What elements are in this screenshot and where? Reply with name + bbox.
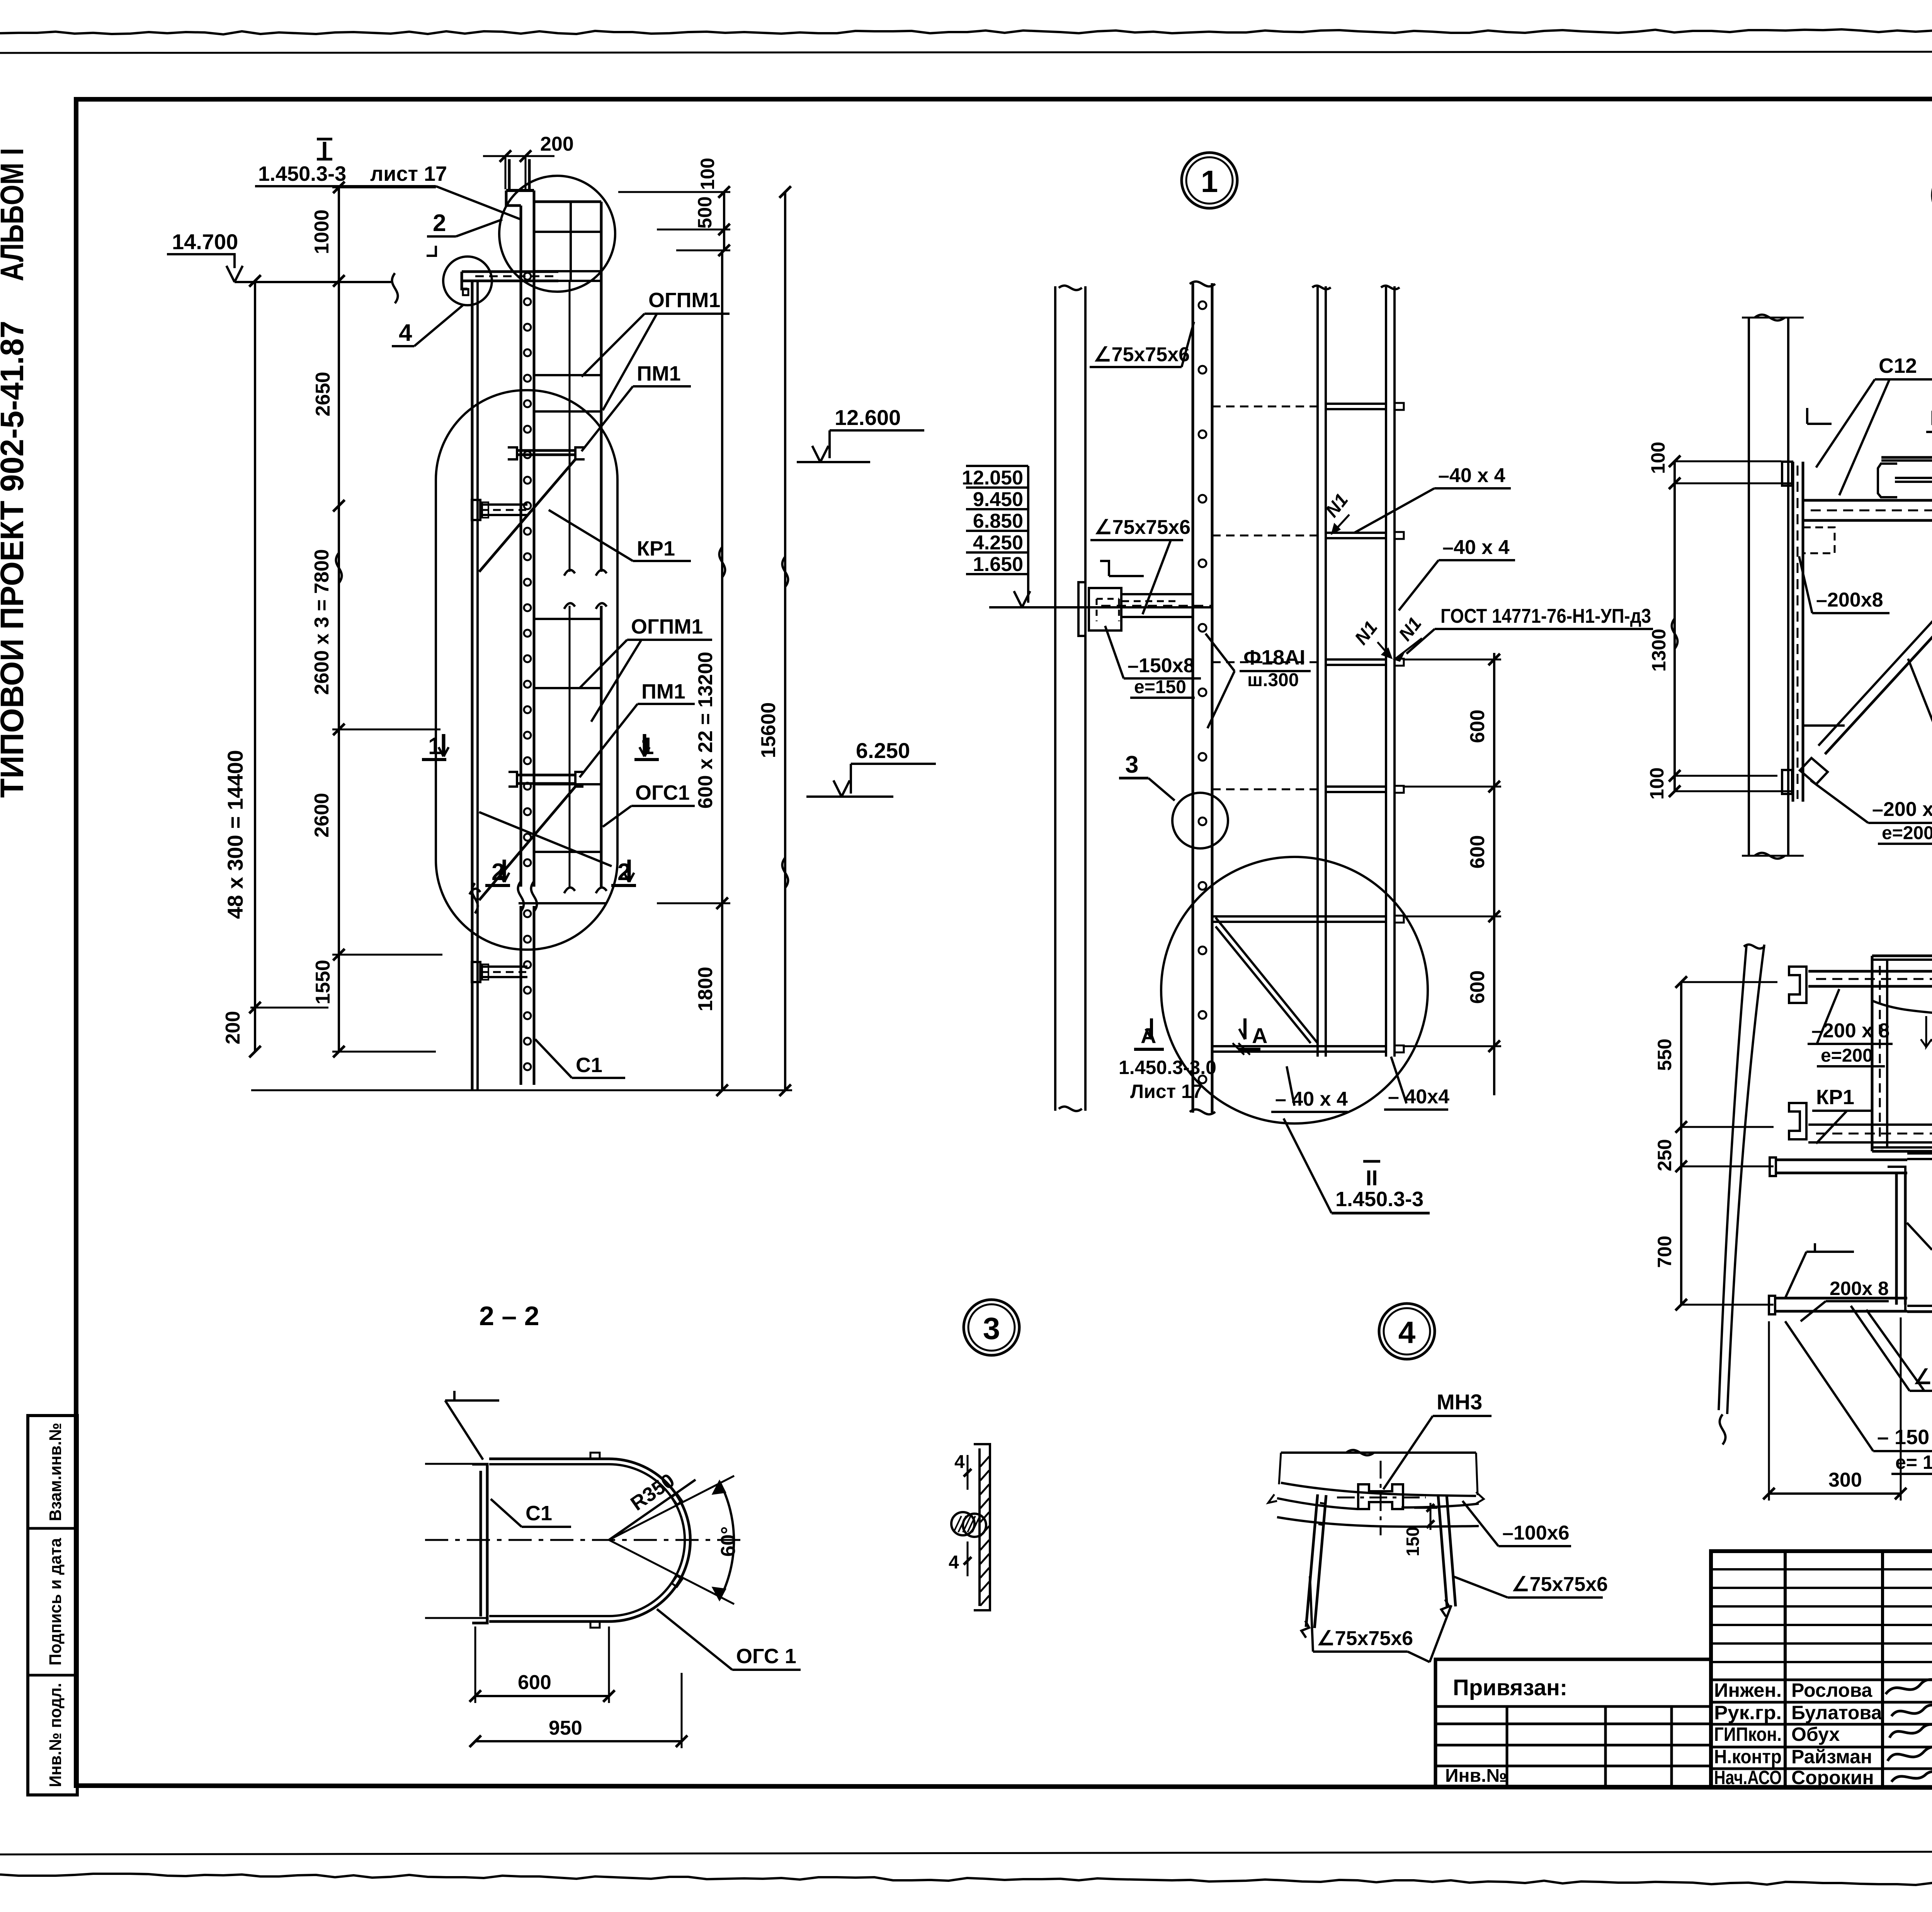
svg-text:ш.300: ш.300 bbox=[1247, 670, 1299, 690]
svg-text:700: 700 bbox=[1654, 1236, 1675, 1268]
svg-text:АЛЬБОМ I: АЛЬБОМ I bbox=[0, 148, 30, 281]
view A: stringer top bent plate bbox=[506, 189, 534, 192]
svg-text:–100х6: –100х6 bbox=[1502, 1522, 1570, 1544]
privyazan box rows bbox=[1435, 1723, 1711, 1725]
view1: corner mark above bracket bbox=[1100, 561, 1109, 576]
view2: diagonal brace L75x75x6 bbox=[1825, 539, 1932, 754]
view A: lower diagonal brace bbox=[479, 787, 575, 900]
view A: stringer lower piece bbox=[520, 906, 522, 1085]
svg-text:ГОСТ 14771-76-Н1-УП-д3: ГОСТ 14771-76-Н1-УП-д3 bbox=[1440, 605, 1651, 627]
svg-text:150: 150 bbox=[1403, 1527, 1423, 1557]
svg-text:1.450.3-3: 1.450.3-3 bbox=[1335, 1188, 1423, 1211]
svg-text:МН3: МН3 bbox=[1437, 1390, 1482, 1414]
outer thin border line top bbox=[0, 51, 1932, 53]
view1-1: left dims 550/250/700 bbox=[1680, 982, 1682, 1305]
view2: platform PM1 on beam bbox=[1881, 456, 1932, 459]
view2-2: left extension lines bbox=[425, 1463, 488, 1465]
svg-text:Обух: Обух bbox=[1791, 1723, 1840, 1745]
title block thin rows upper bbox=[1711, 1568, 1932, 1570]
view A: corner mark top bbox=[427, 246, 436, 256]
title block name rows bbox=[1711, 1679, 1932, 1681]
svg-text:∠75х75х6: ∠75х75х6 bbox=[1094, 343, 1190, 366]
svg-text:∠ 75х75х 6: ∠ 75х75х 6 bbox=[1913, 1365, 1932, 1389]
left margin table row line 1 bbox=[28, 1527, 77, 1530]
svg-text:15600: 15600 bbox=[757, 702, 780, 758]
svg-text:–150х8: –150х8 bbox=[1128, 654, 1195, 677]
signatures (cursive strokes) bbox=[1886, 1677, 1932, 1694]
detail4: right leg break bbox=[1441, 1599, 1449, 1616]
detail4: right leg L75x75x6 bbox=[1438, 1496, 1447, 1607]
svg-text:4: 4 bbox=[1398, 1315, 1416, 1349]
view A: cage left vertical bbox=[471, 281, 474, 1089]
view1: tank wall verticals bbox=[1054, 286, 1056, 1111]
svg-text:е=200: е=200 bbox=[1882, 823, 1932, 843]
svg-text:600: 600 bbox=[1466, 970, 1489, 1004]
privyazan box bbox=[1435, 1659, 1711, 1787]
left margin table frame bbox=[28, 1416, 77, 1795]
svg-text:КР1: КР1 bbox=[1816, 1086, 1854, 1109]
svg-text:2 – 2: 2 – 2 bbox=[479, 1301, 539, 1331]
view1: rungs bbox=[1326, 403, 1386, 405]
svg-text:200: 200 bbox=[540, 133, 574, 155]
view1: level arrow to bracket bbox=[1027, 574, 1029, 603]
svg-text:100: 100 bbox=[697, 158, 718, 190]
view2-2: cage hoop (stadium) bbox=[489, 1459, 690, 1621]
svg-text:ПМ1: ПМ1 bbox=[641, 680, 685, 703]
svg-text:ТИПОВОЙ ПРОЕКТ 902-5-41.87: ТИПОВОЙ ПРОЕКТ 902-5-41.87 bbox=[0, 321, 30, 798]
svg-text:3: 3 bbox=[983, 1311, 1000, 1346]
view1: dim 600 column bbox=[1493, 653, 1495, 1095]
view1-1: mid beam plan dashed bbox=[1808, 1123, 1932, 1126]
svg-text:60°: 60° bbox=[717, 1526, 740, 1557]
view1-1: lower shelf -150x8 bottom bbox=[1776, 1297, 1907, 1300]
view1-1: grating hatch marks bbox=[1921, 1016, 1932, 1047]
view A: cage cut hooks at section 1 bbox=[564, 570, 575, 576]
view1: detail circle II bbox=[1161, 857, 1428, 1123]
svg-text:600: 600 bbox=[1466, 710, 1489, 743]
svg-text:600: 600 bbox=[1466, 835, 1489, 869]
view A: cage rungs upper bbox=[534, 374, 601, 376]
view A: common bottom extension line bbox=[251, 1089, 792, 1091]
view1: wall bracket assembly bbox=[1089, 588, 1121, 631]
svg-text:Рослова: Рослова bbox=[1791, 1679, 1873, 1701]
svg-text:2600 х 3 = 7800: 2600 х 3 = 7800 bbox=[311, 549, 333, 695]
view2-2: radial lines 60deg bbox=[609, 1476, 734, 1540]
view1: ladder rails -40x4 bbox=[1316, 286, 1319, 1057]
view A: top platform at 14.700 bbox=[462, 270, 558, 273]
svg-text:1: 1 bbox=[641, 733, 654, 760]
svg-text:Булатова: Булатова bbox=[1791, 1702, 1882, 1723]
svg-text:Инжен.: Инжен. bbox=[1714, 1679, 1782, 1701]
svg-text:1: 1 bbox=[428, 733, 441, 760]
svg-text:1: 1 bbox=[1201, 164, 1218, 199]
svg-text:200х 8: 200х 8 bbox=[1830, 1278, 1889, 1299]
view1-1: dim 300 bbox=[1769, 1492, 1901, 1495]
view1: diagonal brace bbox=[1216, 918, 1318, 1043]
view A: platform support angle small bbox=[463, 289, 468, 295]
svg-text:– 40 х 4: – 40 х 4 bbox=[1275, 1088, 1348, 1110]
view A: lower cage rungs bbox=[534, 618, 601, 620]
svg-text:С12: С12 bbox=[1879, 354, 1917, 377]
view A: detail oval (stadium) around nodes bbox=[436, 390, 617, 950]
detail4: edge break marks bbox=[1268, 1494, 1277, 1503]
svg-text:С1: С1 bbox=[526, 1502, 552, 1525]
svg-text:500: 500 bbox=[694, 196, 716, 228]
view1: weld ticks on lower rung bbox=[1233, 1043, 1244, 1055]
detail4: centerlines of embed bbox=[1380, 1461, 1382, 1535]
svg-text:1.650: 1.650 bbox=[973, 553, 1023, 576]
svg-text:6.850: 6.850 bbox=[973, 510, 1023, 532]
node circle 3 bbox=[964, 1300, 1019, 1355]
svg-text:1000: 1000 bbox=[311, 209, 333, 254]
svg-text:200: 200 bbox=[222, 1011, 244, 1045]
view A: dim extension lines bbox=[332, 187, 436, 189]
detail4: tank bottom curved band bbox=[1281, 1483, 1476, 1496]
svg-text:II: II bbox=[1366, 1166, 1378, 1190]
detail4: left leg L75x75x6 bbox=[1306, 1494, 1318, 1627]
svg-text:–40 х 4: –40 х 4 bbox=[1438, 464, 1505, 487]
view1-1: top beam plan bbox=[1808, 970, 1932, 973]
view A: right dim 100/500 bbox=[723, 192, 725, 250]
view A: stringer break marks bbox=[518, 881, 524, 911]
svg-text:Инв.№: Инв.№ bbox=[1445, 1766, 1507, 1786]
view1: stringer verticals bbox=[1192, 283, 1194, 1113]
svg-text:1300: 1300 bbox=[1648, 629, 1670, 671]
view2: vertical plate -200x8 on wall bbox=[1792, 462, 1794, 802]
detail4: dim 150 bbox=[1430, 1503, 1432, 1530]
view A: cage cut hooks at section 2 bbox=[564, 887, 575, 893]
view2-2: centerline horizontal bbox=[425, 1539, 742, 1541]
svg-text:ОГПМ1: ОГПМ1 bbox=[631, 615, 703, 638]
svg-text:ПМ1: ПМ1 bbox=[1930, 406, 1932, 430]
svg-text:2: 2 bbox=[433, 210, 446, 236]
view1-1: top bracket C12 section bbox=[1789, 967, 1806, 1003]
detail3: plate with hatching bbox=[978, 1448, 981, 1606]
privyazan box columns bbox=[1506, 1706, 1509, 1787]
view A: cage right vertical upper zone bbox=[600, 202, 603, 572]
svg-text:ОГС 1: ОГС 1 bbox=[736, 1645, 796, 1668]
svg-text:– 40х4: – 40х4 bbox=[1388, 1086, 1449, 1108]
svg-text:100: 100 bbox=[1646, 767, 1668, 799]
svg-text:4.250: 4.250 bbox=[973, 532, 1023, 554]
view2: tank wall band bbox=[1748, 318, 1750, 856]
svg-text:1550: 1550 bbox=[312, 960, 334, 1004]
view A: detail circle node 4 bbox=[443, 257, 492, 305]
view2-2: 60deg arc with arrows bbox=[719, 1482, 734, 1599]
view2: small wall plates C12 bbox=[1782, 462, 1792, 486]
detail3: weld circles hatched bbox=[951, 1512, 975, 1535]
detail4: left leg break bbox=[1301, 1621, 1309, 1638]
view A: platform PM1 mid bbox=[517, 449, 575, 452]
svg-text:14.700: 14.700 bbox=[172, 229, 238, 254]
view1-1: tank wall curved bbox=[1719, 945, 1747, 1410]
view1-1: platform PM1 plan bbox=[1872, 955, 1932, 957]
svg-text:48 х 300 = 14400: 48 х 300 = 14400 bbox=[223, 750, 247, 919]
svg-text:Привязан:: Привязан: bbox=[1453, 1675, 1567, 1700]
svg-text:–200х8: –200х8 bbox=[1816, 589, 1883, 611]
svg-text:Подпись и дата: Подпись и дата bbox=[46, 1538, 65, 1666]
svg-text:600 х 22 = 13200: 600 х 22 = 13200 bbox=[694, 652, 717, 809]
view2-2: dim 600 bbox=[475, 1695, 609, 1697]
view A: detail circle node 2 top bbox=[499, 176, 615, 292]
view A: cage inner vertical dashed bbox=[569, 281, 571, 572]
svg-text:1.450.3-3: 1.450.3-3 bbox=[258, 162, 346, 185]
node circle 4 bbox=[1379, 1304, 1435, 1359]
view A: stringer holes bbox=[524, 273, 531, 280]
svg-text:4: 4 bbox=[954, 1452, 965, 1472]
view A: second dim line ticks bbox=[338, 187, 340, 1052]
svg-text:1.450.3-3.0: 1.450.3-3.0 bbox=[1119, 1057, 1216, 1078]
view2-2: R350 radius line and label bbox=[609, 1480, 696, 1540]
svg-text:4: 4 bbox=[399, 320, 412, 346]
title block names grid verticals bbox=[1784, 1551, 1787, 1787]
svg-text:Рук.гр.: Рук.гр. bbox=[1714, 1702, 1782, 1723]
view1: bracket inner dashed detail bbox=[1097, 598, 1119, 600]
view1-1: mid bracket C12 section bbox=[1789, 1103, 1806, 1139]
svg-text:ОГС1: ОГС1 bbox=[635, 781, 690, 804]
view A: KR1 bracket lower bbox=[472, 962, 480, 982]
svg-text:Лист 17: Лист 17 bbox=[1130, 1081, 1203, 1102]
svg-text:4: 4 bbox=[949, 1552, 959, 1573]
left margin table row line 2 bbox=[28, 1674, 77, 1677]
view1-1: cage OGS1 plan (stadium) bbox=[1907, 1153, 1932, 1312]
svg-text:ПМ1: ПМ1 bbox=[637, 362, 681, 385]
title block outer frame bbox=[1711, 1551, 1932, 1787]
view A: diagonal brace bbox=[479, 459, 575, 572]
svg-text:– 150 х 8: – 150 х 8 bbox=[1877, 1426, 1932, 1449]
view1-1: platform broken-away curve bbox=[1872, 1001, 1932, 1066]
svg-text:–200 х 8: –200 х 8 bbox=[1872, 798, 1932, 821]
svg-text:1800: 1800 bbox=[694, 967, 717, 1011]
svg-text:12.050: 12.050 bbox=[962, 467, 1023, 489]
svg-text:600: 600 bbox=[518, 1671, 551, 1694]
svg-text:∠75х75х6: ∠75х75х6 bbox=[1317, 1627, 1413, 1650]
view A: top exit post bbox=[508, 159, 511, 190]
view2: wall break bottom bbox=[1742, 855, 1804, 857]
view1-1: stringer C1 plan bbox=[1895, 1173, 1898, 1305]
view2: left dims 100/1300/100 bbox=[1673, 461, 1676, 791]
svg-text:ГИПкон.: ГИПкон. bbox=[1714, 1723, 1782, 1745]
svg-text:С1: С1 bbox=[576, 1054, 602, 1077]
outer thin border line bottom bbox=[0, 1851, 1932, 1854]
torn paper edge top (wavy) bbox=[0, 29, 1932, 34]
svg-text:Райзман: Райзман bbox=[1791, 1746, 1872, 1768]
detail4: MN3 embed part bbox=[1358, 1484, 1403, 1509]
view2: wall break top bbox=[1742, 317, 1804, 319]
svg-text:N1: N1 bbox=[1351, 617, 1382, 649]
node circle 1 bbox=[1182, 153, 1237, 208]
svg-text:2650: 2650 bbox=[312, 372, 334, 416]
view2: corner mark bbox=[1806, 408, 1808, 424]
view2: gusset dashed hidden lines bbox=[1803, 527, 1835, 553]
view A: top guard rails bbox=[534, 201, 601, 203]
torn paper edge bottom (wavy) bbox=[0, 1874, 1932, 1888]
svg-text:Нач.АСО: Нач.АСО bbox=[1714, 1767, 1782, 1788]
view1: lower rungs full width bbox=[1212, 915, 1386, 918]
detail4: top break line bbox=[1281, 1451, 1476, 1454]
view A: KR1 bracket upper bbox=[472, 500, 480, 520]
view1: stringer holes bbox=[1199, 301, 1206, 309]
svg-text:100: 100 bbox=[1647, 442, 1669, 474]
svg-text:е=150: е=150 bbox=[1134, 677, 1186, 697]
svg-text:6.250: 6.250 bbox=[856, 738, 910, 763]
svg-text:е=200: е=200 bbox=[1821, 1045, 1873, 1066]
view2: brace bottom gusset bbox=[1803, 724, 1845, 727]
svg-text:ОГПМ1: ОГПМ1 bbox=[648, 289, 720, 312]
view A: long dim line 15600 bbox=[784, 192, 786, 1090]
view A: cage verticals middle zone bbox=[600, 606, 603, 889]
svg-text:∠75х75х6: ∠75х75х6 bbox=[1094, 516, 1190, 539]
view2-2: stringer C1 section bbox=[480, 1471, 482, 1616]
svg-text:300: 300 bbox=[1828, 1469, 1862, 1491]
view A: shallow diagonal brace bbox=[479, 812, 612, 866]
view1-1: corner mark left lower bbox=[1806, 1243, 1815, 1252]
svg-text:550: 550 bbox=[1654, 1038, 1675, 1071]
view A: ladder stringer C1 side upper bbox=[520, 206, 522, 887]
svg-text:КР1: КР1 bbox=[637, 537, 675, 560]
svg-text:950: 950 bbox=[549, 1717, 582, 1739]
svg-text:9.450: 9.450 bbox=[973, 488, 1023, 511]
svg-text:∠75х75х6: ∠75х75х6 bbox=[1512, 1573, 1608, 1596]
view2: top horizontal beam bbox=[1803, 499, 1932, 502]
svg-text:3: 3 bbox=[1125, 751, 1138, 778]
svg-text:Сорокин: Сорокин bbox=[1791, 1767, 1874, 1788]
view2-2: dim 950 bbox=[475, 1740, 682, 1742]
svg-text:250: 250 bbox=[1654, 1139, 1675, 1171]
svg-text:12.600: 12.600 bbox=[835, 405, 901, 430]
view1-1: lower shelf -150x8 top bbox=[1776, 1159, 1907, 1161]
view A: left dim line 48x300=14400 bbox=[254, 281, 256, 1052]
svg-text:2600: 2600 bbox=[311, 793, 333, 838]
svg-text:Ф18АI: Ф18АI bbox=[1243, 646, 1305, 669]
svg-text:А: А bbox=[1252, 1023, 1267, 1048]
svg-text:–40 х 4: –40 х 4 bbox=[1442, 536, 1510, 559]
view2-2: corner mark top bbox=[445, 1391, 454, 1400]
svg-text:Взам.инв.№: Взам.инв.№ bbox=[46, 1423, 65, 1521]
svg-text:Инв.№ подл.: Инв.№ подл. bbox=[46, 1683, 65, 1787]
view A: long dim line 600x22=13200 bbox=[721, 250, 723, 1090]
view A: lower platform PM1 bbox=[517, 774, 575, 777]
view A: cage cut line below section 2 bbox=[519, 902, 606, 904]
svg-text:лист 17: лист 17 bbox=[370, 162, 447, 185]
view2-2: cleat marks on hoop bbox=[590, 1453, 600, 1459]
svg-text:Н.контр: Н.контр bbox=[1714, 1746, 1782, 1768]
